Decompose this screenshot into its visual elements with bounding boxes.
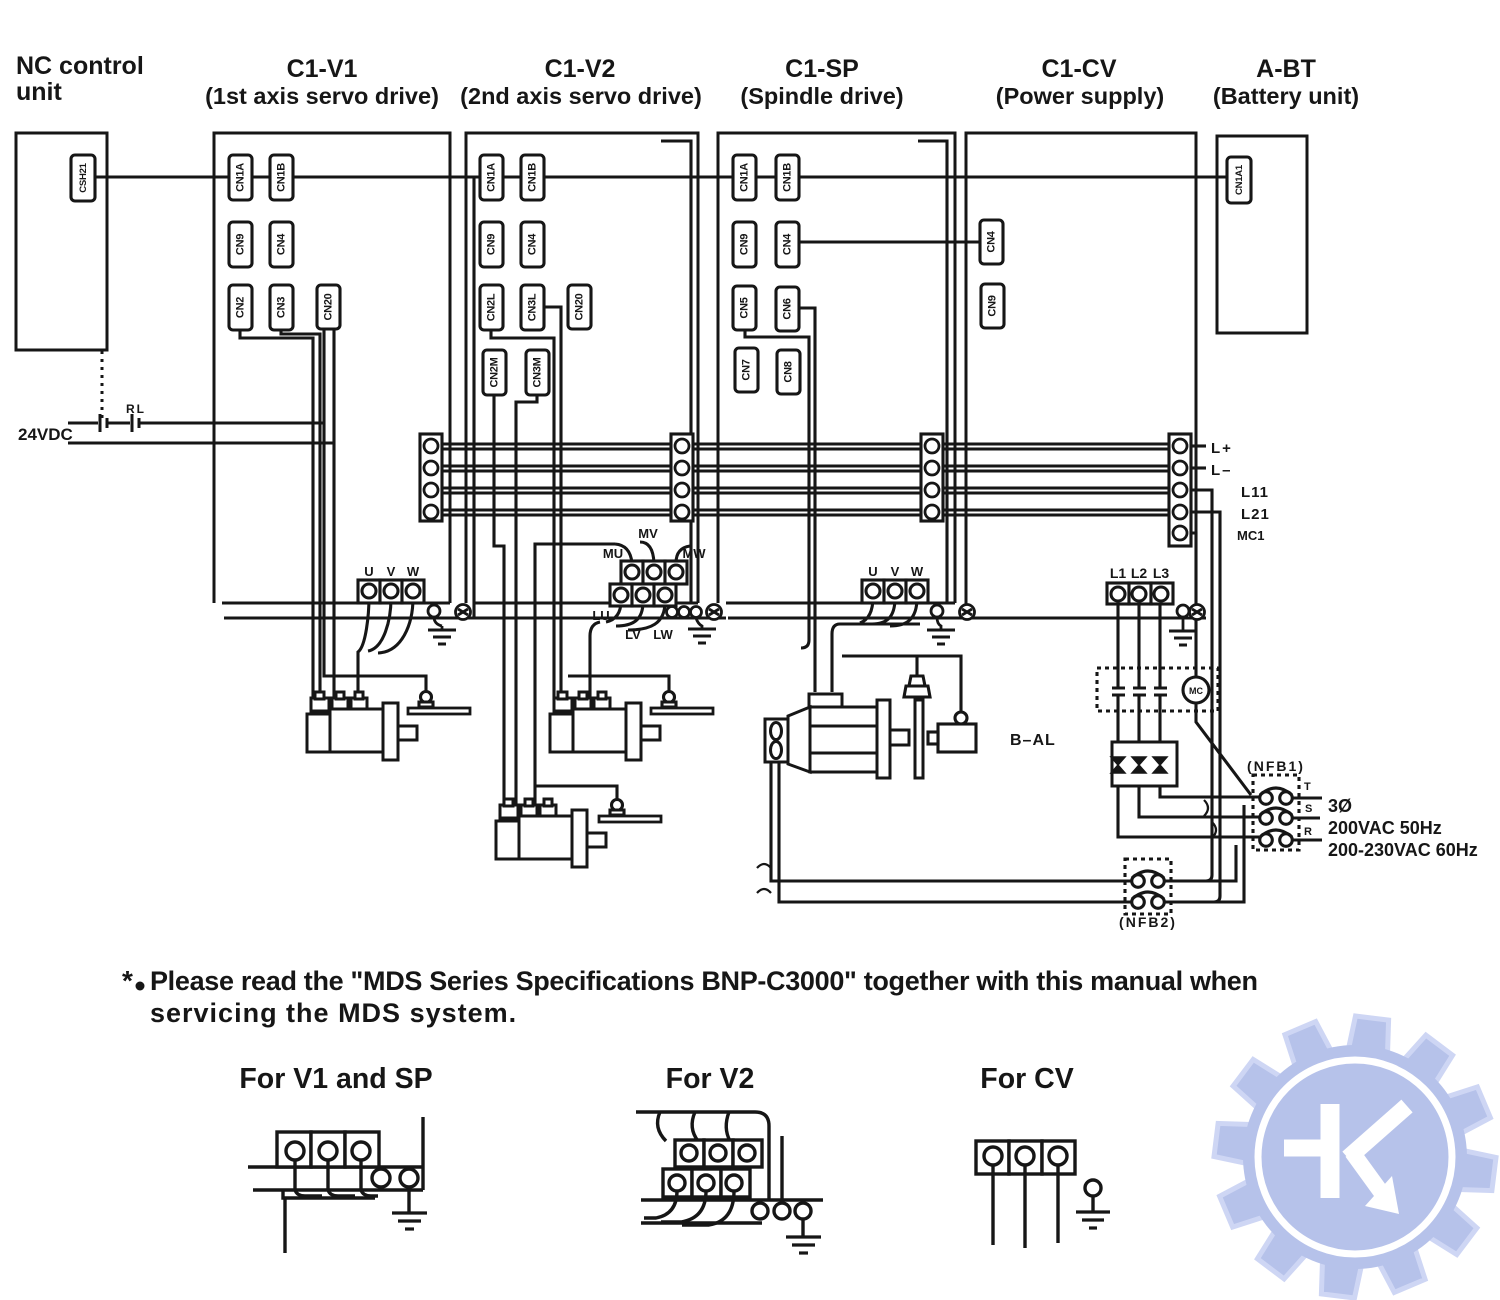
breaker NFB2 row 2 <box>1132 892 1165 908</box>
bottom edge C1-CV <box>974 617 1206 620</box>
clamp bar motor1 <box>408 692 470 715</box>
wire CN6 to spindle motor <box>798 308 815 692</box>
fuse box <box>1112 742 1177 786</box>
wire L21 to NFB2 row2 <box>1164 896 1220 902</box>
svg-text:For CV: For CV <box>980 1063 1073 1095</box>
svg-text:(Power supply): (Power supply) <box>996 83 1164 109</box>
svg-text:CN9: CN9 <box>739 234 751 255</box>
svg-text:CN3L: CN3L <box>527 293 539 321</box>
svg-text:CN20: CN20 <box>323 293 335 320</box>
svg-text:(NFB2): (NFB2) <box>1119 914 1177 930</box>
svg-text:For V1 and SP: For V1 and SP <box>239 1063 432 1095</box>
svg-text:(Battery unit): (Battery unit) <box>1213 83 1359 109</box>
ground screw circle C1-SP <box>931 605 943 617</box>
wire V1 ground drop <box>434 617 442 630</box>
MC contactor coil <box>1183 677 1209 703</box>
wire main signal bus CSH21 to CN1A1 <box>95 175 1227 178</box>
rail line C <box>641 1221 762 1224</box>
wire inner right C1-SP <box>918 141 947 603</box>
svg-text:CN1B: CN1B <box>782 163 794 192</box>
svg-text:(1st axis servo drive): (1st axis servo drive) <box>205 83 439 109</box>
spindle thermal dome <box>904 676 930 697</box>
dashed box capacitors and MC <box>1097 668 1218 711</box>
svg-text:CN1B: CN1B <box>276 163 288 192</box>
unit box C1-CV <box>966 133 1196 604</box>
svg-text:S: S <box>1305 803 1312 815</box>
ground C1-CV <box>1169 631 1197 645</box>
svg-text:W: W <box>911 564 924 579</box>
feet hooks <box>295 1190 378 1196</box>
svg-text:W: W <box>407 564 420 579</box>
connector CN3L (C1-V2) <box>521 285 544 330</box>
svg-text:L–: L– <box>1211 462 1233 479</box>
svg-text:B–AL: B–AL <box>1010 732 1056 749</box>
PE screw C1-CV <box>1190 605 1205 620</box>
rail line B <box>641 1198 823 1201</box>
crossing loop marks <box>757 864 771 893</box>
battery symbol <box>100 414 107 432</box>
PE screw C1-V1 <box>456 605 471 620</box>
svg-text:CN1B: CN1B <box>527 163 539 192</box>
svg-text:C1-SP: C1-SP <box>785 55 859 83</box>
connector CN3M (C1-V2) <box>526 350 549 395</box>
svg-text:CN1A: CN1A <box>486 163 498 192</box>
servo motor M2 (C1-V2 L axis) <box>550 692 660 760</box>
wire stems <box>295 1160 361 1190</box>
stub L11 down right side <box>1191 490 1212 875</box>
unit box NC control unit <box>16 133 107 350</box>
svg-text:LW: LW <box>653 627 673 642</box>
unit box C1-V1 <box>214 133 450 603</box>
svg-text:CN2: CN2 <box>235 297 247 318</box>
svg-text:L2: L2 <box>1131 565 1148 581</box>
svg-text:CN1A: CN1A <box>235 163 247 192</box>
bus terminal strip 2 <box>671 434 693 521</box>
svg-text:C1-V2: C1-V2 <box>545 55 616 83</box>
drop hooks into upper row <box>658 1112 730 1141</box>
svg-text:CN8: CN8 <box>783 361 795 382</box>
unit box A-BT <box>1217 136 1307 333</box>
svg-text:(2nd axis servo drive): (2nd axis servo drive) <box>460 83 702 109</box>
terminal block UVW C1-SP <box>862 580 928 603</box>
wire spindle fan down left 1 <box>771 762 1131 881</box>
svg-text:24VDC: 24VDC <box>18 425 73 444</box>
svg-text:CN9: CN9 <box>235 234 247 255</box>
svg-text:LV: LV <box>625 627 641 642</box>
wire MU MV MW feed to motor3 <box>535 544 615 807</box>
ground stem <box>407 1187 410 1213</box>
connector CN1B (C1-SP) <box>776 155 799 200</box>
rail circles <box>752 1203 768 1219</box>
terminal block LU LV LW C1-V2 <box>610 584 676 606</box>
NFB2 dashed box <box>1125 859 1171 914</box>
svg-text:MW: MW <box>682 546 706 561</box>
bus bar L+ <box>442 444 1169 449</box>
wires down <box>993 1165 1058 1248</box>
svg-text:200VAC 50Hz: 200VAC 50Hz <box>1328 818 1442 838</box>
wire L3 drop with capacitor <box>1154 601 1167 742</box>
wire motor2 clamp link <box>568 676 669 697</box>
wire LU LV LW hooks to motor2 power <box>590 601 665 700</box>
wire U V W hooks to motor1 power <box>358 597 413 700</box>
svg-text:200-230VAC 60Hz: 200-230VAC 60Hz <box>1328 840 1478 860</box>
svg-text:V: V <box>387 564 396 579</box>
ground screw circle C1-CV <box>1177 605 1189 617</box>
unit box C1-SP <box>718 133 955 603</box>
svg-text:T: T <box>1304 781 1311 793</box>
connector CN7 (C1-SP) <box>735 348 758 392</box>
connector CN6 (C1-SP) <box>776 287 799 331</box>
battery symbol RL <box>132 414 139 432</box>
PE screw C1-SP <box>960 605 975 620</box>
terminal block MU MV MW C1-V2 <box>621 561 687 584</box>
stub L+ <box>1191 444 1206 447</box>
wire MU arc <box>615 544 632 563</box>
bottom edge C1-SP <box>726 603 981 618</box>
wire 24VDC bottom line <box>68 441 334 444</box>
wire CN20 right to motor1 <box>332 330 335 700</box>
ground pin <box>1085 1180 1101 1196</box>
svg-text:CN9: CN9 <box>987 295 999 316</box>
NFB1 dashed box <box>1253 775 1299 850</box>
wire spindle power drop <box>830 634 833 692</box>
NFB2 right stubs up <box>1164 805 1244 902</box>
breaker NFB1 row T <box>1260 788 1293 804</box>
upper terminal row <box>675 1140 762 1167</box>
left step down <box>283 1190 375 1253</box>
bus bar L- <box>442 466 1169 471</box>
wire CN3L to motor2 encoder <box>543 307 561 700</box>
svg-text:U: U <box>868 564 877 579</box>
clamp bar motor2 <box>651 692 713 715</box>
stub L21 down right side <box>1191 512 1220 896</box>
wire SP ground drop <box>937 617 941 630</box>
wire CN2L to motor2 encoder <box>491 330 554 700</box>
svg-text:LU: LU <box>592 608 609 623</box>
spindle fan unit B-AL <box>928 712 976 752</box>
svg-text:CN20: CN20 <box>574 293 586 320</box>
ground C1-V2 <box>688 629 716 643</box>
connector CN9 (C1-V1) <box>229 222 252 267</box>
svg-text:CN6: CN6 <box>782 298 794 319</box>
ground wire circles C1-V2 <box>667 607 702 618</box>
servo motor M1 (C1-V1 axis) <box>307 692 417 760</box>
crossing hooks near NFB1 <box>1204 800 1216 838</box>
svg-text:unit: unit <box>16 78 62 106</box>
connector CN1B (C1-V1) <box>270 155 293 200</box>
wire CN4 link C1-SP to C1-CV <box>799 240 980 243</box>
ground stem <box>801 1219 804 1237</box>
svg-text:(NFB1): (NFB1) <box>1247 758 1305 774</box>
svg-text:RL: RL <box>126 402 146 416</box>
wire spindle fan down left 2 <box>779 762 1131 902</box>
connector CN4 (C1-V2) <box>521 222 544 267</box>
wire motor3 clamp link <box>535 786 617 805</box>
wire L1 drop with capacitor <box>1112 601 1125 742</box>
svg-text:CN4: CN4 <box>782 233 794 255</box>
wire CN20 left 24VDC drop to clamp <box>324 330 426 697</box>
connector CN1A (C1-V2) <box>480 155 503 200</box>
wire L2 drop with capacitor <box>1133 601 1146 742</box>
connector CN2M (C1-V2) <box>483 350 506 395</box>
wire MV arc <box>640 542 654 563</box>
connector CN20 (C1-V2) <box>568 285 591 329</box>
wire fuse2 to NFB1 row2 <box>1139 786 1259 817</box>
svg-text:CN4: CN4 <box>276 233 288 255</box>
stub MC1 <box>1191 533 1196 677</box>
second vertical <box>780 1136 783 1200</box>
svg-text:For V2: For V2 <box>666 1063 755 1095</box>
svg-text:U: U <box>364 564 373 579</box>
wire inner right C1-V2 <box>661 141 691 603</box>
connector CN4 (C1-CV) <box>980 220 1003 264</box>
svg-text:CN5: CN5 <box>739 297 751 318</box>
wire fuse1 to NFB1 row3 <box>1118 786 1259 837</box>
wire CN2M to motor3 <box>494 395 504 807</box>
ground C1-V1 <box>428 630 456 644</box>
right vertical <box>421 1117 424 1190</box>
connector CN8 (C1-SP) <box>777 350 800 394</box>
breaker NFB1 row S <box>1260 808 1293 824</box>
svg-text:CN2L: CN2L <box>486 293 498 321</box>
spindle motor <box>765 694 923 778</box>
fuse 2 <box>1132 757 1146 773</box>
ground screw circle C1-V1 <box>428 605 440 617</box>
svg-text:CN9: CN9 <box>486 234 498 255</box>
bus terminal strip 1 <box>420 434 442 521</box>
svg-text:CN4: CN4 <box>527 233 539 255</box>
svg-text:L21: L21 <box>1241 506 1270 523</box>
terminal block <box>277 1132 379 1167</box>
connector CN2 (C1-V1) <box>229 285 252 330</box>
fuse 1 <box>1111 757 1125 773</box>
rail circles <box>372 1169 390 1187</box>
bus terminal strip 3 <box>921 434 943 521</box>
wire V2 ground drop <box>696 618 702 629</box>
svg-text:L+: L+ <box>1211 440 1233 457</box>
connector CN1A1 (A-BT) <box>1227 157 1251 203</box>
svg-text:R: R <box>1304 826 1312 838</box>
svg-text:MC: MC <box>1189 686 1203 696</box>
connector CN1A (C1-V1) <box>229 155 252 200</box>
connector CN20 (C1-V1) <box>317 285 340 329</box>
svg-text:C1-V1: C1-V1 <box>287 55 358 83</box>
PE screw C1-V2 <box>707 605 722 620</box>
svg-text:MC1: MC1 <box>1237 528 1264 543</box>
svg-text:L11: L11 <box>1241 484 1269 501</box>
wire main line drop C1-V2 <box>472 177 475 618</box>
clamp bar motor3 <box>599 800 661 823</box>
connector CN3 (C1-V1) <box>270 285 293 330</box>
wire fuse3 to NFB1 row1 <box>1160 786 1259 797</box>
bus bar L21 <box>442 510 1169 515</box>
svg-text:CSH21: CSH21 <box>78 162 89 192</box>
svg-text:*: * <box>122 965 133 996</box>
detail For V2 <box>636 1112 823 1237</box>
terminal block UVW C1-V1 <box>358 580 424 603</box>
connector CN9 (C1-SP) <box>733 222 756 267</box>
bus bar L11 <box>442 488 1169 493</box>
connector CN9 (C1-CV) <box>981 284 1004 328</box>
svg-text:MU: MU <box>603 546 623 561</box>
ground For CV <box>1076 1212 1110 1228</box>
bottom edge C1-V1 <box>222 603 478 618</box>
breaker NFB1 row R <box>1260 830 1293 846</box>
svg-text:CN2M: CN2M <box>489 357 501 387</box>
servo motor M3 (C1-V2 M axis) <box>496 799 606 867</box>
connector CN4 (C1-V1) <box>270 222 293 267</box>
svg-text:C1-CV: C1-CV <box>1041 55 1116 83</box>
connector CN2L (C1-V2) <box>480 285 503 330</box>
ground For V2 <box>786 1237 821 1253</box>
svg-text:CN3: CN3 <box>276 297 288 318</box>
svg-text:Please read the "MDS Series Sp: Please read the "MDS Series Specificatio… <box>150 966 1258 996</box>
connector CN1A (C1-SP) <box>733 155 756 200</box>
svg-text:V: V <box>891 564 900 579</box>
wire UVW SP hooks to spindle power <box>832 597 920 634</box>
svg-text:3Ø: 3Ø <box>1328 796 1352 816</box>
wire dotted NC to 24VDC <box>101 351 104 419</box>
detail For CV <box>976 1141 1101 1248</box>
svg-text:CN1A1: CN1A1 <box>1234 164 1245 195</box>
svg-text:CN1A: CN1A <box>739 163 751 192</box>
svg-text:CN7: CN7 <box>741 359 753 380</box>
connector CN5 (C1-SP) <box>733 286 756 330</box>
breaker NFB2 row 1 <box>1132 871 1165 887</box>
wire L11 to NFB2 row1 <box>1164 875 1212 881</box>
wire MC coil to NFB1 <box>1196 703 1251 795</box>
wire CN3M to motor3 <box>516 395 537 807</box>
wire B-AL link <box>842 656 961 714</box>
wire MW arc <box>676 546 690 563</box>
svg-text:CN3M: CN3M <box>532 357 544 387</box>
fuse 3 <box>1153 757 1167 773</box>
unit box C1-V2 <box>466 133 698 603</box>
svg-text:(Spindle drive): (Spindle drive) <box>740 83 903 109</box>
bottom edge C1-V2 <box>474 603 726 618</box>
terminal block <box>976 1141 1075 1174</box>
svg-text:MV: MV <box>638 526 658 541</box>
svg-text:L3: L3 <box>1153 565 1170 581</box>
ground For V1 and SP <box>392 1213 427 1229</box>
wire 24VDC top line <box>68 421 324 424</box>
wire CN5 drop <box>745 331 809 648</box>
connector CN9 (C1-V2) <box>480 222 503 267</box>
svg-text:L1: L1 <box>1110 565 1127 581</box>
NFB1 right stubs <box>1293 798 1322 840</box>
stub L- <box>1191 466 1206 469</box>
terminal block L1 L2 L3 C1-CV <box>1107 583 1173 604</box>
connector CN4 (C1-SP) <box>776 222 799 267</box>
lower terminal row <box>663 1169 750 1197</box>
svg-text:servicing the MDS system.: servicing the MDS system. <box>150 998 517 1028</box>
svg-text:A-BT: A-BT <box>1256 55 1316 83</box>
connector CSH21 (NC control unit) <box>71 155 95 201</box>
lower hooks <box>644 1191 734 1225</box>
ground C1-SP <box>927 630 955 644</box>
detail For V1 and SP <box>248 1117 423 1253</box>
top feed line <box>636 1112 769 1200</box>
wire CV ground drop <box>1182 617 1185 631</box>
wire thermal dome <box>915 656 918 676</box>
connector CN1B (C1-V2) <box>521 155 544 200</box>
rail band <box>248 1167 423 1190</box>
svg-text:CN4: CN4 <box>986 230 998 252</box>
bus terminal strip 4 with MC1 <box>1169 434 1191 546</box>
wire motor1 clamp bar link <box>0 0 2 2</box>
wire CN2 to motor1 encoder <box>240 330 313 700</box>
watermark gear logo <box>1214 1016 1496 1298</box>
wire CN3 to motor1 encoder <box>281 330 320 700</box>
svg-text:NC control: NC control <box>16 52 144 80</box>
